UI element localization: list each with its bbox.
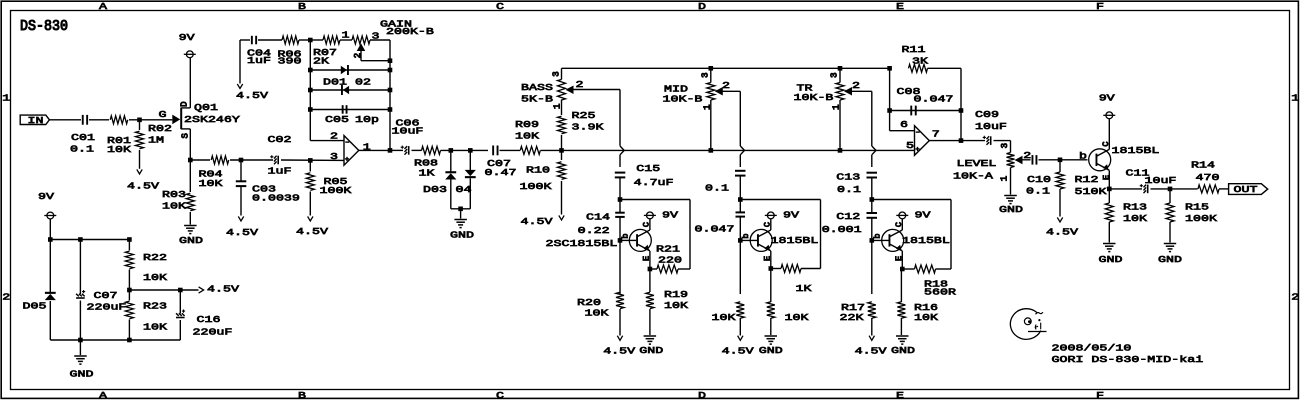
resistor 10K cell2 right <box>770 269 772 303</box>
resistor R21 220 <box>657 265 678 273</box>
capacitor C06 10uF electrolytic <box>390 149 403 151</box>
wire C04 down to 4.5V <box>239 40 241 84</box>
left feedback bus <box>309 40 311 141</box>
diode D01 <box>310 69 390 71</box>
svg-text:10uF: 10uF <box>1145 176 1177 187</box>
resistor R03 10K <box>189 160 191 192</box>
svg-text:D03: D03 <box>423 184 447 195</box>
wire cell2 collector rail <box>740 199 820 201</box>
svg-text:G: G <box>158 110 166 121</box>
svg-text:9V: 9V <box>783 210 799 221</box>
wire MID wiper <box>722 90 740 92</box>
svg-text:4.5V: 4.5V <box>603 346 635 357</box>
svg-text:220uF: 220uF <box>86 302 126 313</box>
transistor Q01 2SK246Y JFET <box>180 108 182 130</box>
svg-text:E: E <box>896 1 904 12</box>
svg-text:R25: R25 <box>571 110 595 121</box>
svg-text:1: 1 <box>703 104 713 109</box>
resistor R04 10K <box>190 159 210 161</box>
svg-text:C: C <box>763 222 773 227</box>
svg-text:b: b <box>873 233 883 238</box>
svg-text:2008/05/10: 2008/05/10 <box>1051 343 1131 354</box>
svg-text:C15: C15 <box>636 163 660 174</box>
svg-text:3.9K: 3.9K <box>571 122 603 133</box>
svg-text:1uF: 1uF <box>267 166 291 177</box>
svg-text:2: 2 <box>852 80 860 91</box>
node op2 out <box>959 138 964 143</box>
svg-text:2K: 2K <box>313 56 329 67</box>
op-amp U1A pins 2 3 1 <box>344 136 359 166</box>
wire LEVEL wiper to C10 <box>1023 159 1031 161</box>
wire BASS wiper <box>574 89 621 91</box>
svg-text:BASS: BASS <box>521 83 553 94</box>
svg-text:D: D <box>698 1 706 12</box>
svg-text:R08: R08 <box>414 158 438 169</box>
capacitor 0.047 cell2 <box>739 200 741 213</box>
svg-text:9V: 9V <box>662 210 678 221</box>
svg-text:4.7uF: 4.7uF <box>634 178 674 189</box>
svg-text:2: 2 <box>722 80 730 91</box>
wire R11 right down to output <box>960 68 962 140</box>
resistor 1K cell2 <box>781 265 801 273</box>
svg-text:510K: 510K <box>1075 187 1107 198</box>
svg-text:R10: R10 <box>526 165 550 176</box>
node diode common <box>458 207 463 212</box>
svg-text:R15: R15 <box>1185 202 1209 213</box>
svg-text:0.47: 0.47 <box>484 168 516 179</box>
svg-text:E: E <box>896 390 904 400</box>
connector OUT <box>1229 184 1268 195</box>
node D01 left <box>308 68 313 73</box>
svg-text:GND: GND <box>450 230 474 241</box>
9V power supply rail <box>47 212 54 219</box>
9V power cell2 <box>767 212 774 219</box>
svg-text:LEVEL: LEVEL <box>956 159 996 170</box>
svg-text:C13: C13 <box>836 172 860 183</box>
capacitor C15 4.7uF <box>615 172 626 174</box>
wire R04 to C02 <box>230 159 273 161</box>
potentiometer MID 10K-B <box>710 68 712 82</box>
svg-text:b: b <box>621 233 631 238</box>
resistor R13 10K <box>1108 189 1110 203</box>
node D02 left <box>308 88 313 93</box>
4.5V arrow cell2 <box>738 336 743 341</box>
svg-text:R19: R19 <box>664 290 688 301</box>
svg-text:1K: 1K <box>795 284 811 295</box>
resistor R06 390 <box>282 36 299 44</box>
capacitor C07 0.47 <box>492 146 494 156</box>
svg-text:10K: 10K <box>143 273 167 284</box>
svg-text:IN: IN <box>28 116 44 127</box>
ground below R15 <box>1164 243 1176 245</box>
svg-text:D05: D05 <box>22 301 46 312</box>
svg-text:C01: C01 <box>71 132 95 143</box>
svg-text:E: E <box>642 256 652 261</box>
svg-text:10K: 10K <box>914 313 938 324</box>
svg-text:2: 2 <box>330 131 338 142</box>
node bus C07 <box>78 338 83 343</box>
svg-text:GND: GND <box>759 346 783 357</box>
svg-text:470: 470 <box>1195 173 1219 184</box>
9V power output transistor <box>1106 112 1113 119</box>
wire LEVEL pin1 to ground <box>1010 168 1012 195</box>
svg-text:10K: 10K <box>664 301 688 312</box>
capacitor C11 10uF electrolytic <box>1147 185 1149 194</box>
svg-text:F: F <box>1096 390 1104 400</box>
resistor R16 10K <box>900 269 902 302</box>
svg-text:C12: C12 <box>836 211 860 222</box>
svg-text:Q01: Q01 <box>194 103 218 114</box>
ground below R13 <box>1103 243 1116 245</box>
GORI mascot logo <box>1010 309 1040 340</box>
svg-text:1: 1 <box>341 30 349 41</box>
svg-text:100K: 100K <box>1185 214 1217 225</box>
resistor R12 510K <box>1059 160 1061 172</box>
svg-text:10K: 10K <box>143 322 167 333</box>
hop TR wiper over main wire <box>872 146 876 155</box>
svg-text:b: b <box>741 233 751 238</box>
svg-text:10K: 10K <box>515 131 539 142</box>
node MID bottom <box>709 148 714 153</box>
node MID top <box>709 66 714 71</box>
diode D04 <box>469 150 471 170</box>
node C16 top <box>178 288 183 293</box>
svg-text:10K-A: 10K-A <box>953 171 993 182</box>
svg-text:0.047: 0.047 <box>695 224 735 235</box>
resistor R11 3K <box>909 64 928 72</box>
svg-text:R14: R14 <box>1191 160 1215 171</box>
node 9V bus left <box>48 237 53 242</box>
svg-text:D01: D01 <box>323 77 347 88</box>
node R22 top <box>127 237 132 242</box>
ground cell3 <box>896 335 909 337</box>
4.5V arrow below R02 <box>137 169 142 174</box>
svg-text:7: 7 <box>932 129 940 140</box>
svg-text:10uF: 10uF <box>975 122 1007 133</box>
resistor R01 10K <box>110 116 128 124</box>
svg-text:220uF: 220uF <box>193 327 233 338</box>
node D02 right <box>388 88 393 93</box>
svg-text:200K-B: 200K-B <box>386 27 434 38</box>
node D03 <box>449 148 454 153</box>
wire C02 to op-amp pin3 <box>281 159 344 161</box>
4.5V arrow cell1 <box>617 336 622 341</box>
svg-text:C: C <box>894 222 904 227</box>
svg-text:C16: C16 <box>196 315 220 326</box>
svg-text:D: D <box>698 390 706 400</box>
svg-text:2SC1815BL: 2SC1815BL <box>546 239 618 250</box>
capacitor C05 10p <box>310 109 390 111</box>
svg-text:R13: R13 <box>1123 202 1147 213</box>
svg-text:1M: 1M <box>148 135 164 146</box>
capacitor 0.1 cell2 <box>735 170 746 172</box>
svg-text:A: A <box>99 390 107 400</box>
right feedback bus <box>389 40 391 150</box>
svg-text:10K: 10K <box>785 313 809 324</box>
diode D03 <box>450 150 452 171</box>
svg-text:1: 1 <box>2 93 10 104</box>
svg-text:R03: R03 <box>162 189 186 200</box>
wire R08 to C07 <box>441 149 489 151</box>
svg-text:C: C <box>1101 141 1111 146</box>
wire main to op-amp pin5 <box>562 149 915 151</box>
svg-text:R23: R23 <box>143 301 167 312</box>
node cell3 rail <box>870 197 875 202</box>
4.5V arrow below R12 <box>1057 217 1062 222</box>
capacitor C13 0.1 <box>867 172 878 174</box>
capacitor C16 220uF electrolytic <box>179 290 181 314</box>
svg-text:10K-B: 10K-B <box>793 93 833 104</box>
potentiometer TR 10K-B <box>839 68 841 82</box>
svg-text:B: B <box>298 1 306 12</box>
4.5V arrow below R10 <box>559 215 564 220</box>
resistor R18 560R <box>915 265 936 273</box>
node D04 <box>468 148 473 153</box>
op-amp output wire <box>359 149 390 151</box>
svg-text:0.047: 0.047 <box>913 94 953 105</box>
svg-text:C14: C14 <box>586 212 610 223</box>
svg-text:9V: 9V <box>914 210 930 221</box>
hop MID wiper over main wire <box>740 146 744 155</box>
wire R09 to BASS node <box>541 149 562 151</box>
resistor R07 2K <box>310 39 323 41</box>
potentiometer BASS 5K-B <box>561 68 563 79</box>
wire divider to 4.5V arrow <box>129 289 198 291</box>
node cell3 emitter <box>900 267 905 272</box>
svg-text:b: b <box>1079 151 1087 162</box>
diode D05 <box>45 294 56 300</box>
svg-text:A: A <box>99 1 107 12</box>
svg-text:5: 5 <box>906 141 914 152</box>
svg-text:DS-830: DS-830 <box>20 19 68 36</box>
node D01 right <box>388 68 393 73</box>
svg-text:4.5V: 4.5V <box>521 216 553 227</box>
svg-text:GND: GND <box>891 346 915 357</box>
svg-text:5K-B: 5K-B <box>521 94 553 105</box>
svg-text:0.1: 0.1 <box>70 144 94 155</box>
svg-text:1815BL: 1815BL <box>902 235 950 246</box>
svg-text:3: 3 <box>330 152 338 163</box>
svg-text:100K: 100K <box>520 182 552 193</box>
svg-text:B: B <box>298 390 306 400</box>
svg-text:2: 2 <box>1291 292 1299 303</box>
node output emitter <box>1107 187 1112 192</box>
node C05 right <box>388 107 393 112</box>
svg-text:C02: C02 <box>267 134 291 145</box>
svg-text:3K: 3K <box>912 56 928 67</box>
svg-text:4.5V: 4.5V <box>855 346 887 357</box>
svg-text:10K: 10K <box>199 178 223 189</box>
svg-text:0.0039: 0.0039 <box>252 193 300 204</box>
capacitor C01 0.1 <box>82 115 84 125</box>
svg-text:4.5V: 4.5V <box>296 227 328 238</box>
svg-text:R09: R09 <box>515 120 539 131</box>
resistor R02 1M <box>139 120 141 130</box>
svg-text:1815BL: 1815BL <box>1111 146 1159 157</box>
wire C07 to R09 <box>500 149 521 151</box>
svg-text:560R: 560R <box>924 287 956 298</box>
svg-text:F: F <box>1096 1 1104 12</box>
svg-text:D: D <box>180 101 190 106</box>
capacitor C09 10uF electrolytic <box>990 136 992 145</box>
node C05 left <box>308 107 313 112</box>
wire cell3 collector rail <box>872 199 951 201</box>
svg-text:9V: 9V <box>38 191 54 202</box>
node cell2 rail <box>738 197 743 202</box>
svg-text:R20: R20 <box>577 298 601 309</box>
4.5V arrow cell3 <box>869 336 874 341</box>
svg-text:E: E <box>1102 175 1112 180</box>
potentiometer LEVEL 10K-A <box>1010 141 1012 153</box>
svg-text:4.5V: 4.5V <box>226 227 258 238</box>
svg-text:C05: C05 <box>325 114 349 125</box>
svg-text:2: 2 <box>353 53 363 58</box>
svg-text:6: 6 <box>900 120 908 131</box>
ground supply <box>79 340 81 355</box>
svg-text:R17: R17 <box>841 302 865 313</box>
svg-text:C: C <box>496 1 504 12</box>
svg-text:10p: 10p <box>355 114 379 125</box>
svg-text:22K: 22K <box>840 313 864 324</box>
node TR top <box>838 66 843 71</box>
node cell3 base <box>870 238 875 243</box>
resistor R10 100K <box>561 150 563 160</box>
node Q01 source <box>188 158 193 163</box>
svg-text:1: 1 <box>832 104 842 109</box>
svg-text:4.5V: 4.5V <box>207 284 239 295</box>
svg-text:S: S <box>181 133 191 138</box>
svg-text:10K: 10K <box>1123 214 1147 225</box>
node feedback bus top-left <box>308 38 313 43</box>
svg-text:R22: R22 <box>143 252 167 263</box>
resistor R05 100K <box>309 160 311 171</box>
svg-text:4.5V: 4.5V <box>722 346 754 357</box>
svg-text:GND: GND <box>1158 255 1182 266</box>
svg-text:E: E <box>763 256 773 261</box>
wire cell1 collector rail <box>620 199 690 201</box>
svg-text:0.22: 0.22 <box>578 226 610 237</box>
svg-text:4.5V: 4.5V <box>236 91 268 102</box>
capacitor C10 0.1 <box>1032 155 1034 165</box>
connector IN <box>20 115 49 124</box>
svg-text:GND: GND <box>1099 255 1123 266</box>
capacitor C12 0.001 <box>871 200 873 214</box>
node BASS bottom <box>559 148 564 153</box>
ground cell2 <box>765 335 778 337</box>
svg-text:GORI DS-830-MID-kai: GORI DS-830-MID-kai <box>1051 354 1203 365</box>
transistor Q 2SC1815BL cell1 <box>620 239 636 241</box>
op-amp U1B pins 6 5 7 <box>915 126 930 156</box>
wire C10 to base <box>1039 159 1088 161</box>
node C07 top <box>78 237 83 242</box>
capacitor C03 0.0039 <box>240 160 242 181</box>
svg-text:R02: R02 <box>148 124 172 135</box>
svg-text:GND: GND <box>179 236 203 247</box>
node cell1 base <box>618 238 623 243</box>
node C15 C14 <box>618 197 623 202</box>
svg-text:TR: TR <box>797 83 813 94</box>
node cell1 emitter <box>648 267 653 272</box>
svg-text:3: 3 <box>371 31 379 42</box>
svg-text:1K: 1K <box>419 168 435 179</box>
node C08 right <box>959 108 964 113</box>
wire C08 left branch <box>889 68 891 130</box>
svg-text:10K: 10K <box>712 313 736 324</box>
resistor R20 10K <box>616 292 624 308</box>
svg-text:2: 2 <box>2 292 10 303</box>
svg-text:GND: GND <box>999 205 1023 216</box>
svg-text:1: 1 <box>1000 176 1010 181</box>
svg-text:R21: R21 <box>656 244 680 255</box>
resistor 10K cell2 left <box>736 302 744 318</box>
capacitor C08 0.047 <box>890 110 961 112</box>
wire TR wiper <box>852 90 872 92</box>
ground cell1 <box>644 335 657 337</box>
svg-text:R11: R11 <box>901 44 925 55</box>
svg-text:9V: 9V <box>1099 93 1115 104</box>
svg-text:100K: 100K <box>320 185 352 196</box>
hop BASS wiper over main wire <box>620 146 624 155</box>
svg-text:E: E <box>894 256 904 261</box>
capacitor C02 1uF electrolytic <box>277 156 279 165</box>
node C03 top <box>239 158 244 163</box>
9V power cell3 <box>899 212 906 219</box>
wire C01 to R01 <box>89 119 109 121</box>
wire top supply bus <box>50 239 129 241</box>
svg-text:220: 220 <box>658 255 682 266</box>
svg-text:04: 04 <box>455 184 471 195</box>
resistor R19 10K <box>649 269 651 292</box>
node C08 left <box>887 108 892 113</box>
node R05 / pin3 <box>308 158 313 163</box>
svg-text:10K: 10K <box>162 201 186 212</box>
transistor 1815BL cell2 <box>740 239 757 241</box>
svg-text:3: 3 <box>551 71 561 76</box>
svg-text:0.1: 0.1 <box>705 183 729 194</box>
svg-text:1: 1 <box>1291 93 1299 104</box>
svg-text:1815BL: 1815BL <box>770 235 818 246</box>
wire IN to C01 <box>49 119 81 121</box>
ground below D03 D04 <box>460 209 462 219</box>
resistor R08 1K <box>422 146 441 154</box>
svg-text:C: C <box>642 222 652 227</box>
svg-text:R12: R12 <box>1075 175 1099 186</box>
resistor R17 22K <box>868 302 876 318</box>
capacitor C07 220uF electrolytic <box>79 240 81 295</box>
transistor 1815BL cell3 <box>872 239 889 241</box>
svg-text:10K: 10K <box>585 308 609 319</box>
diode D02 <box>310 89 390 91</box>
9V power cell1 <box>647 212 654 219</box>
capacitor C14 0.22 <box>619 200 621 213</box>
svg-text:02: 02 <box>355 77 371 88</box>
resistor R22 10K <box>128 240 130 251</box>
svg-text:3: 3 <box>1000 143 1010 148</box>
ground below R03 <box>184 225 197 227</box>
wire top rail BASS to MID to TR <box>562 67 890 69</box>
svg-text:2: 2 <box>576 80 584 91</box>
4.5V arrow below C03 <box>238 216 243 221</box>
4.5V arrow below R05 <box>308 216 313 221</box>
svg-text:GND: GND <box>639 346 663 357</box>
svg-text:0.1: 0.1 <box>1026 186 1050 197</box>
svg-text:10K-B: 10K-B <box>662 94 702 105</box>
node cell2 base <box>738 238 743 243</box>
resistor R23 10K <box>128 290 130 301</box>
svg-text:3: 3 <box>701 72 711 77</box>
svg-text:0.001: 0.001 <box>822 225 862 236</box>
node rail to C08 branch <box>887 66 892 71</box>
